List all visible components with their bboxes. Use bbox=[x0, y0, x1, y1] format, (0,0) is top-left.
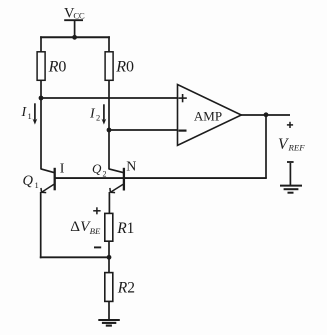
svg-text:Q: Q bbox=[23, 173, 34, 189]
svg-text:CC: CC bbox=[73, 11, 84, 21]
transistor Q2 bbox=[109, 168, 124, 193]
label VREF bbox=[278, 136, 305, 153]
label dVBE bbox=[70, 218, 101, 236]
wire R2 bottom bbox=[108, 301, 110, 319]
svg-text:R2: R2 bbox=[117, 279, 135, 296]
junction dot emitter node bbox=[107, 255, 112, 260]
junction dot output bbox=[264, 112, 269, 117]
wire right branch upper bbox=[108, 36, 110, 52]
svg-text:R1: R1 bbox=[116, 220, 134, 237]
label R2 bbox=[117, 279, 135, 296]
junction dot node collector Q1 bbox=[39, 96, 44, 101]
label node I bbox=[60, 161, 65, 176]
svg-text:R0: R0 bbox=[48, 58, 67, 75]
wire left branch lower bbox=[40, 80, 42, 169]
wire R1 to R2 bbox=[108, 241, 110, 272]
svg-text:I: I bbox=[21, 105, 28, 120]
label R1 bbox=[116, 220, 134, 237]
wire right branch lower bbox=[108, 80, 110, 169]
current arrow I2 bbox=[102, 104, 107, 124]
resistor R0 right bbox=[105, 52, 113, 81]
wire left branch upper bbox=[40, 36, 42, 52]
op-amp plus input sign bbox=[178, 94, 186, 102]
resistor R0 left bbox=[37, 52, 45, 81]
svg-text:2: 2 bbox=[96, 113, 100, 123]
svg-text:I: I bbox=[60, 161, 65, 176]
svg-text:1: 1 bbox=[35, 180, 39, 190]
wire to AMP plus input bbox=[41, 97, 178, 99]
svg-text:N: N bbox=[126, 159, 136, 174]
label R0 right bbox=[115, 58, 134, 75]
label plus of dVBE bbox=[93, 207, 100, 214]
resistor R2 bbox=[105, 273, 113, 302]
wire AMP output bbox=[241, 114, 290, 116]
power Vcc bar bbox=[64, 19, 83, 21]
svg-text:BE: BE bbox=[90, 226, 101, 236]
label plus of VREF bbox=[287, 122, 293, 128]
wire base line Q1 Q2 bbox=[55, 177, 267, 179]
label I2 bbox=[89, 107, 100, 123]
resistor R1 bbox=[105, 213, 113, 241]
wire Vcc stem bbox=[74, 20, 76, 38]
junction dot rail bbox=[72, 35, 77, 40]
label minus of dVBE bbox=[94, 246, 101, 248]
label Q1 bbox=[23, 173, 39, 190]
wire Q1 emitter drop bbox=[40, 192, 42, 258]
svg-text:R0: R0 bbox=[115, 58, 134, 75]
svg-text:REF: REF bbox=[288, 143, 306, 153]
op-amp minus input sign bbox=[179, 130, 187, 132]
svg-text:Q: Q bbox=[92, 161, 102, 176]
label node N bbox=[126, 159, 136, 174]
label AMP bbox=[194, 108, 222, 123]
ground right bbox=[280, 186, 302, 193]
junction dot node collector Q2 bbox=[107, 128, 112, 133]
svg-text:AMP: AMP bbox=[194, 108, 222, 123]
wire bottom feedback horizontal bbox=[40, 256, 109, 258]
wire top rail bbox=[40, 36, 110, 38]
wire ground stem right bbox=[289, 163, 291, 185]
transistor Q1 bbox=[41, 168, 55, 193]
VREF minus terminal bbox=[287, 161, 294, 163]
svg-text:ΔV: ΔV bbox=[70, 218, 91, 235]
label Q2 bbox=[92, 161, 107, 179]
op-amp U1 triangle bbox=[178, 85, 242, 146]
wire Q2 emitter drop bbox=[108, 192, 110, 213]
wire to AMP minus input bbox=[109, 129, 178, 131]
label R0 left bbox=[48, 58, 67, 75]
power Vcc label bbox=[64, 5, 85, 21]
ground bottom bbox=[98, 320, 120, 326]
wire feedback vertical from output bbox=[265, 115, 267, 178]
label I1 bbox=[21, 105, 32, 121]
svg-text:I: I bbox=[89, 107, 96, 122]
svg-text:1: 1 bbox=[28, 111, 32, 121]
svg-text:2: 2 bbox=[103, 170, 107, 179]
current arrow I1 bbox=[33, 103, 38, 124]
svg-text:V: V bbox=[278, 136, 289, 153]
